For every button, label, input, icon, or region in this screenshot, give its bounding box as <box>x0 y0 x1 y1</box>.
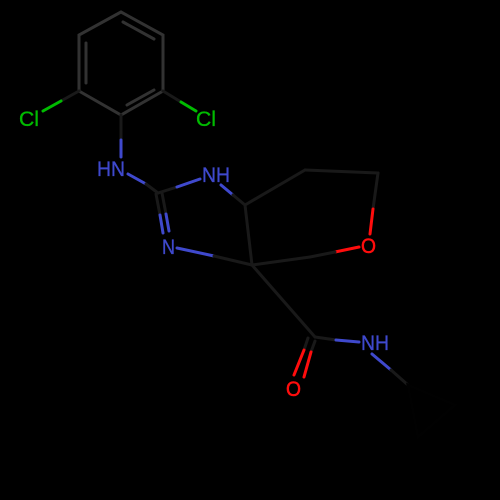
bond Ccarbonyl-N amide blue half <box>336 340 359 342</box>
double bond C2=N3 line b gray half <box>162 193 166 214</box>
bond C5-CP pyran <box>245 170 305 205</box>
double bond C2=N3 line a gray half <box>156 194 160 215</box>
bond N amine - C2 imidazoline blue half <box>128 174 146 184</box>
svg-text:HN: HN <box>97 158 125 181</box>
bond C3-Cl1 green half <box>43 101 61 111</box>
bond N amine - C2 imidazoline gray half <box>146 184 158 193</box>
svg-text:N: N <box>162 236 175 259</box>
svg-text:Cl: Cl <box>19 108 39 131</box>
bond N3-C4 gray half <box>214 256 252 265</box>
bond C5-Cl2 green half <box>181 102 196 111</box>
bond O-C2f red half <box>335 247 359 252</box>
carbonyl C=O line a red half <box>294 350 304 375</box>
bond N3-C4 blue half <box>177 248 214 256</box>
svg-text:O: O <box>361 235 376 258</box>
bond N amide - cyclopropyl CH gray half <box>391 370 408 385</box>
bond C2-N1H blue half <box>177 179 200 187</box>
cyclopropane ring <box>408 385 455 437</box>
bond N amide - cyclopropyl CH blue half <box>372 354 391 370</box>
bond C1-N amine gray half <box>120 115 123 140</box>
bond O-C2f gray half <box>310 252 335 257</box>
bond CQ-O pyran red half <box>370 209 373 234</box>
svg-text:NH: NH <box>202 164 230 187</box>
bond C3-Cl1 gray half <box>61 91 79 101</box>
bond C2f-C4 <box>252 257 310 265</box>
carbonyl C=O line b red half <box>304 352 311 377</box>
carbonyl C=O line b gray half <box>311 341 315 352</box>
bond CP-CQ pyran <box>305 170 378 173</box>
bond C1-N amine blue half <box>120 140 123 157</box>
bond N1-C5 gray half <box>233 195 245 205</box>
benzene ring (2,6-dichlorophenyl) <box>79 12 163 115</box>
svg-text:Cl: Cl <box>196 108 216 131</box>
bond C5-Cl2 gray half <box>163 91 181 102</box>
bond Ccarbonyl-N amide gray half <box>315 337 336 340</box>
bond C4-C carbonyl <box>252 265 315 337</box>
double bond C2=N3 line a blue half <box>160 215 163 233</box>
bond N1-C5 blue half <box>221 185 233 195</box>
double bond C2=N3 line b blue half <box>166 214 169 231</box>
svg-text:NH: NH <box>361 332 389 355</box>
bond CQ-O pyran gray half <box>373 173 378 209</box>
bond C2-N1H gray half <box>158 187 177 193</box>
svg-text:O: O <box>286 378 301 401</box>
carbonyl C=O line a gray half <box>304 338 308 350</box>
bond C5-C4 <box>245 205 252 265</box>
